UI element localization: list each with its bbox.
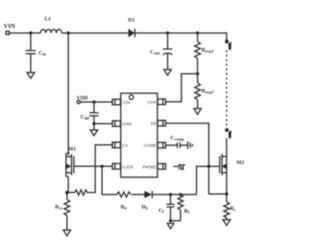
ground (Cf/Rf) xyxy=(167,223,174,228)
transistor M1 xyxy=(66,33,76,193)
svg-text:Cdd: Cdd xyxy=(81,115,90,121)
svg-text:Rf: Rf xyxy=(184,209,190,215)
node junction Rf xyxy=(179,193,182,196)
transistor M2 xyxy=(220,138,245,194)
capacitor Cout xyxy=(150,33,172,56)
ground (Cout) xyxy=(164,70,171,76)
VIN input terminal xyxy=(6,31,9,34)
pin box GATE xyxy=(112,164,120,170)
diode Db xyxy=(142,191,153,211)
resistor Rovp1 xyxy=(195,33,214,58)
diode D1 xyxy=(128,18,135,38)
ground (Cdd) xyxy=(90,130,97,136)
svg-text:Db: Db xyxy=(142,205,149,211)
wire Db to Cf node xyxy=(152,194,196,196)
wire Ccomp to ground xyxy=(180,144,188,146)
resistor Rs xyxy=(224,194,236,218)
svg-text:Rovp1: Rovp1 xyxy=(202,48,214,54)
wire Rs to ground xyxy=(226,218,228,220)
svg-text:PWMD: PWMD xyxy=(143,164,156,169)
LED string output arrow bottom xyxy=(225,128,229,132)
ground (Rs) xyxy=(223,220,230,226)
LED string output arrow top xyxy=(225,40,229,44)
VDD terminal xyxy=(77,100,80,103)
node junction VDD/Cdd xyxy=(92,100,95,103)
node junction Cdd/GND xyxy=(92,122,95,125)
resistor Rb (horizontal) xyxy=(117,192,131,211)
wire Rovp1 to Rovp2 xyxy=(197,58,199,83)
node junction Rovp xyxy=(196,31,199,34)
capacitor Cin xyxy=(26,33,47,57)
wire Rb to Db xyxy=(131,194,144,196)
node junction M1 source / Rcs xyxy=(65,191,68,194)
wire Cf/Rf join xyxy=(171,220,181,222)
wire M1 source to Rcs filter xyxy=(67,192,75,194)
svg-text:Ccomp: Ccomp xyxy=(171,136,185,142)
node junction FB/M2 gate xyxy=(207,165,210,168)
svg-text:Cin: Cin xyxy=(39,51,47,57)
svg-text:GND: GND xyxy=(122,122,131,127)
node junction M2 source / Rs xyxy=(225,192,228,195)
wire OVP pin to divider tap xyxy=(166,74,196,102)
pin 1 indicator xyxy=(129,95,133,100)
resistor Rf xyxy=(178,195,190,221)
resistor Rcs filter (horizontal) xyxy=(75,190,88,195)
wire to ground (Cdd) xyxy=(93,124,95,130)
wire filter to CS riser xyxy=(87,145,112,193)
wire VIN terminal to L1 xyxy=(9,32,40,34)
svg-text:D1: D1 xyxy=(128,18,135,24)
svg-text:Cf: Cf xyxy=(159,208,165,214)
wire IC GATE pin to M1 gate xyxy=(74,165,112,167)
pin box VIN xyxy=(112,99,120,105)
svg-text:FB: FB xyxy=(151,121,156,126)
ground (Rovp2) xyxy=(194,109,201,115)
node junction L1/M1 drain xyxy=(67,31,70,34)
svg-text:Rcs: Rcs xyxy=(55,205,63,211)
wire Cout to ground xyxy=(167,54,169,70)
node junction Cf xyxy=(169,193,172,196)
wire VDD to VIN pin xyxy=(80,101,112,103)
resistor Rcs xyxy=(55,193,70,216)
wire FB pin to sense node xyxy=(166,123,225,194)
svg-text:L1: L1 xyxy=(45,17,52,23)
wire COMP pin to Ccomp xyxy=(166,144,177,146)
wire gate node down to slope network xyxy=(102,166,117,194)
op-amp U1 controller IC body xyxy=(121,93,158,177)
wire Cdd to GND pin xyxy=(93,116,95,124)
wire Rovp2 to ground xyxy=(197,100,199,109)
svg-text:Rs: Rs xyxy=(230,206,236,212)
node junction Cf/Rf ground xyxy=(169,219,172,222)
inductor L1 xyxy=(41,17,62,34)
resistor Rovp2 xyxy=(195,83,214,99)
svg-text:Cout: Cout xyxy=(150,50,160,56)
LED string dashed wire xyxy=(226,50,228,127)
ground (Ccomp, rotated) xyxy=(188,141,193,149)
PWM input waveform symbol xyxy=(174,165,186,169)
node junction OVP tap xyxy=(196,72,199,75)
svg-text:Rb: Rb xyxy=(121,205,128,211)
wire L1 to D1 anode xyxy=(62,32,129,34)
capacitor Cf xyxy=(159,195,175,221)
pin box CS xyxy=(112,142,120,148)
pin box OVP xyxy=(158,99,166,105)
pin box COMP xyxy=(158,142,166,148)
node junction VIN/Cin xyxy=(29,31,32,34)
wire Rcs to ground xyxy=(66,215,68,230)
svg-text:GATE: GATE xyxy=(122,164,133,169)
svg-text:COMP: COMP xyxy=(144,143,157,148)
ground (Rcs) xyxy=(63,230,70,236)
svg-text:M2: M2 xyxy=(236,160,244,166)
wire network to M2 gate riser xyxy=(197,166,220,194)
node junction Cout xyxy=(166,31,169,34)
svg-text:VIN: VIN xyxy=(4,23,16,30)
node junction gate network xyxy=(100,165,103,168)
svg-text:Rovp2: Rovp2 xyxy=(202,89,214,95)
pin box FB xyxy=(158,120,166,126)
ground (Cin) xyxy=(27,73,35,79)
pin box PWMD xyxy=(158,164,166,170)
capacitor Cdd xyxy=(81,102,99,121)
svg-text:VIN: VIN xyxy=(122,100,130,105)
svg-text:OVP: OVP xyxy=(147,100,156,105)
pin box GND xyxy=(112,121,120,127)
wire D1 cathode to output corner xyxy=(135,33,227,41)
svg-text:CS: CS xyxy=(122,143,128,148)
capacitor Ccomp xyxy=(171,136,185,149)
svg-text:M1: M1 xyxy=(68,147,76,153)
wire Cin to ground xyxy=(30,54,32,73)
